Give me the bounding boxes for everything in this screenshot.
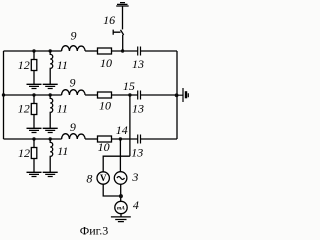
- ground (row 2, under inductor 11): [43, 128, 58, 132]
- AC source 3 circle: [114, 172, 127, 185]
- node (row 1 / switch): [121, 49, 124, 52]
- svg-text:10: 10: [99, 99, 111, 113]
- wire rail 2 left segment: [4, 94, 62, 96]
- wire from node 15 down (crosses rail 3): [129, 95, 131, 156]
- wire rail 1 to capacitor: [112, 50, 138, 52]
- wire switch to rail 1: [122, 35, 124, 51]
- svg-text:10: 10: [98, 140, 110, 154]
- switch 16 fixed contact: [113, 30, 120, 35]
- wire voltmeter bottom: [103, 184, 121, 196]
- node 15 (row 2): [128, 93, 131, 96]
- resistor 12 (row 1): [33, 51, 35, 60]
- node A (row 3, resistor 12 tap): [32, 137, 35, 140]
- svg-text:9: 9: [70, 76, 76, 90]
- milliammeter 4 circle: [115, 201, 127, 213]
- svg-text:11: 11: [57, 102, 68, 116]
- svg-text:12: 12: [18, 146, 30, 160]
- resistor 12 (row 2): [33, 95, 35, 104]
- node at meter join: [119, 194, 123, 198]
- resistor 12 (row 3): [33, 139, 35, 148]
- svg-text:13: 13: [131, 146, 143, 160]
- ground (row 3, under resistor 12): [27, 172, 42, 176]
- svg-text:9: 9: [71, 29, 77, 43]
- node at left bus / rail 2 junction: [2, 93, 5, 96]
- wire from top ground down: [122, 6, 124, 29]
- wire rail 1 left segment: [4, 50, 62, 52]
- wire rail 2 to capacitor: [112, 94, 138, 96]
- inductor 9 (row 1): [62, 46, 86, 51]
- capacitor 13 (row 3): [138, 135, 141, 144]
- svg-text:V: V: [100, 173, 107, 183]
- svg-text:13: 13: [132, 102, 144, 116]
- inductor 11 (row 3): [50, 139, 53, 172]
- wire from node 14 down to source: [119, 139, 121, 172]
- ground (right, sideways): [177, 88, 188, 102]
- node A (row 2, resistor 12 tap): [32, 93, 35, 96]
- wire rail 2 right segment: [141, 94, 177, 96]
- svg-text:12: 12: [18, 58, 30, 72]
- svg-text:10: 10: [100, 56, 112, 70]
- wire rail 3 to capacitor: [112, 138, 138, 140]
- node at right bus / rail 2: [175, 93, 179, 97]
- wire rail 2 mid segment: [85, 94, 97, 96]
- left bus wire: [3, 51, 5, 139]
- inductor 9 (row 2): [62, 90, 86, 95]
- svg-text:12: 12: [18, 102, 30, 116]
- inductor 11 (row 2): [50, 95, 53, 128]
- svg-text:mA: mA: [117, 205, 125, 211]
- capacitor 13 (row 2): [138, 91, 141, 100]
- wire rail 3 mid segment: [85, 138, 97, 140]
- ground (row 1, under resistor 12): [27, 84, 42, 88]
- resistor 10 (row 3): [98, 136, 112, 142]
- right bus wire: [176, 51, 178, 139]
- ground (row 3, under inductor 11): [43, 172, 58, 176]
- svg-text:4: 4: [133, 198, 139, 212]
- node B (row 3, inductor 11 tap): [49, 137, 52, 140]
- ground (top, inverted): [116, 3, 129, 6]
- svg-text:9: 9: [70, 120, 76, 134]
- ground (row 1, under inductor 11): [43, 84, 58, 88]
- capacitor 13 (row 1): [138, 47, 141, 56]
- wire jog to voltmeter branch: [103, 156, 130, 172]
- wire rail 3 left segment: [4, 138, 62, 140]
- wire rail 1 right segment: [141, 50, 177, 52]
- resistor 10 (row 1): [98, 48, 112, 54]
- voltmeter U8 circle: [97, 172, 109, 184]
- svg-text:Фиг.3: Фиг.3: [80, 224, 108, 238]
- wire rail 1 mid segment: [85, 50, 97, 52]
- wire milliammeter to ground: [120, 214, 122, 217]
- svg-text:16: 16: [103, 13, 115, 27]
- node B (row 2, inductor 11 tap): [49, 93, 52, 96]
- svg-text:11: 11: [57, 144, 68, 158]
- inductor 9 (row 3): [62, 134, 86, 139]
- ground (bottom): [111, 217, 131, 222]
- inductor 11 (row 1): [50, 51, 53, 84]
- node 14 (row 3): [119, 137, 122, 140]
- switch 16 blade: [121, 30, 124, 35]
- ground (row 2, under resistor 12): [27, 128, 42, 132]
- resistor 10 (row 2): [98, 92, 112, 98]
- wire AC source bottom: [120, 184, 122, 201]
- svg-text:3: 3: [131, 170, 138, 184]
- node B (row 1, inductor 11 tap): [49, 49, 52, 52]
- svg-text:14: 14: [116, 123, 128, 137]
- svg-text:8: 8: [86, 171, 92, 185]
- svg-text:13: 13: [132, 57, 144, 71]
- wire rail 3 right segment: [141, 138, 177, 140]
- node A (row 1, resistor 12 tap): [32, 49, 35, 52]
- svg-text:15: 15: [123, 79, 135, 93]
- svg-text:11: 11: [57, 58, 68, 72]
